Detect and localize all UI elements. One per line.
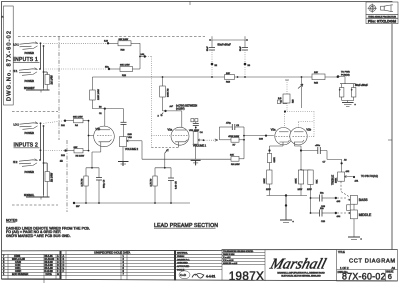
resistor R1 1M — [45, 74, 53, 90]
svg-text:Marshall: Marshall — [267, 256, 328, 273]
resistor R8 10K — [230, 155, 244, 166]
svg-text:VOLUME 1: VOLUME 1 — [193, 144, 207, 148]
svg-text:CCT DIAGRAM: CCT DIAGRAM — [349, 259, 396, 265]
wire anode V1a — [163, 111, 182, 130]
svg-text:100K: 100K — [296, 178, 298, 184]
svg-text:G: G — [57, 273, 59, 276]
svg-text:1987X: 1987X — [229, 270, 265, 283]
wire jack bus 1 — [41, 43, 48, 88]
net flag B1 — [191, 119, 198, 124]
svg-text:470p: 470p — [226, 122, 232, 124]
DWG number box (vertical, top-left) — [4, 6, 14, 105]
thick bar 2 — [174, 250, 176, 280]
revision texts — [3, 255, 125, 276]
svg-text:POWER: POWER — [25, 52, 35, 55]
wire jack bus 2 — [41, 123, 48, 195]
svg-text:NORMAL: NORMAL — [24, 194, 35, 197]
cathode bus wire — [73, 202, 190, 208]
wire C2R7 right junction — [243, 127, 245, 159]
svg-text:X = ±0.5: X = ±0.5 — [223, 257, 231, 259]
resistor R13 10K — [225, 73, 235, 84]
capacitor C21 — [207, 40, 218, 77]
svg-text:DATE: DATE — [46, 273, 53, 276]
wire C2R7 left junction — [218, 127, 220, 140]
approval stamps — [179, 271, 215, 279]
svg-text:50uF+50uF: 50uF+50uF — [218, 42, 232, 46]
wire cathode V1a — [155, 147, 178, 179]
resistor R4 68K — [66, 117, 89, 128]
resistor R5 68K — [67, 147, 89, 158]
svg-text:V2a: V2a — [271, 128, 276, 132]
dotted wire lo1 to R22 — [44, 68, 108, 70]
resistor Rk1 — [267, 154, 276, 171]
capacitor C22 — [240, 40, 251, 77]
thick bar 1 — [60, 251, 62, 280]
resistor R7 470K — [219, 136, 244, 147]
svg-text:1/2W: 1/2W — [307, 189, 312, 191]
capacitor C19 — [310, 193, 348, 208]
svg-text:68K 1/4W: 68K 1/4W — [120, 65, 131, 67]
svg-text:220K 1/4W: 220K 1/4W — [98, 88, 100, 100]
svg-text:R5 1/4W: R5 1/4W — [76, 156, 85, 158]
svg-text:10K: 10K — [314, 72, 318, 74]
to pwr pcb note — [337, 72, 350, 78]
INPUTS 1 label — [14, 57, 40, 63]
svg-text:MARSHALL AMPLIFICATION PLC, DE: MARSHALL AMPLIFICATION PLC, DENBIGH ROAD — [277, 272, 325, 275]
INPUTS 2 label — [14, 143, 40, 149]
tolerance box — [222, 250, 265, 282]
node dot mid2 — [40, 149, 42, 151]
svg-text:50uF: 50uF — [240, 46, 242, 51]
svg-text:10K: 10K — [230, 155, 234, 157]
svg-text:68K: 68K — [74, 147, 78, 149]
svg-text:1M 1/4W: 1M 1/4W — [51, 74, 53, 84]
title box — [337, 250, 398, 282]
pcb boundary dashed top — [18, 36, 205, 38]
capacitor C20 — [310, 208, 348, 223]
svg-text:1M 1/4W: 1M 1/4W — [51, 172, 53, 182]
wire cathode — [92, 152, 101, 168]
svg-text:6: 6 — [388, 272, 392, 281]
jack LO1 — [14, 42, 39, 55]
svg-text:100K: 100K — [264, 178, 266, 184]
svg-text:ANGLES = ±0.5: ANGLES = ±0.5 — [223, 262, 238, 265]
node 1Ba — [105, 66, 110, 70]
svg-text:TO PWR: TO PWR — [341, 72, 350, 74]
wire split — [86, 168, 99, 178]
ref arrow 1A3 — [158, 113, 164, 118]
svg-text:820R: 820R — [274, 157, 276, 163]
resistor bank R10 — [264, 170, 272, 196]
svg-text:V1a: V1a — [168, 127, 173, 131]
resistor bank R12 — [301, 170, 319, 213]
node dots HI1 — [39, 68, 41, 70]
svg-text:NOTES: NOTES — [6, 218, 18, 222]
resistor R3 — [82, 176, 89, 203]
svg-text:470K 1/4W: 470K 1/4W — [228, 136, 240, 138]
wire middle to ground — [353, 219, 355, 237]
jack LO2 — [14, 122, 39, 135]
ground right bank — [342, 101, 357, 108]
svg-text:FINISH: FINISH — [177, 256, 185, 258]
svg-text:R8 1/4W: R8 1/4W — [231, 164, 240, 166]
net flag B-B — [278, 98, 287, 103]
wire V2b cathode — [295, 145, 302, 170]
svg-text:X.X = ±0.25: X.X = ±0.25 — [223, 260, 234, 262]
dotted anode V2a — [284, 110, 286, 131]
capacitor C5 — [168, 178, 178, 203]
svg-text:HI 2: HI 2 — [13, 161, 18, 164]
dotted grid loop V2b — [285, 112, 314, 137]
ground middle — [348, 237, 363, 242]
svg-text:GND'S MARKED * ARE PCB BUS GND: GND'S MARKED * ARE PCB BUS GND. — [6, 234, 71, 238]
svg-text:1/2W: 1/2W — [266, 189, 271, 191]
svg-text:10K: 10K — [226, 73, 230, 75]
resistor bank R11 — [296, 170, 304, 196]
dotted wire to V1a grid — [146, 57, 170, 148]
LEAD PREAMP SECTION label — [154, 223, 218, 229]
cathode bus wire y159 — [142, 158, 231, 160]
svg-text:50uF: 50uF — [207, 46, 209, 51]
svg-text:A4*: A4* — [170, 105, 174, 108]
svg-text:680p C3: 680p C3 — [104, 179, 106, 188]
jack HI2 — [13, 159, 38, 174]
pot VR1 volume 1 — [189, 130, 207, 147]
svg-text:(+125V): (+125V) — [176, 108, 185, 111]
svg-text:V2b: V2b — [306, 128, 311, 132]
svg-text:87X-60-02: 87X-60-02 — [342, 272, 386, 282]
svg-text:1/2W: 1/2W — [298, 189, 303, 191]
resistor R22 68K — [110, 65, 140, 78]
pcb boundary dash-dot vertical lower — [66, 140, 68, 212]
dotted wire lo2 to R4 node — [44, 121, 64, 124]
dashed treble to bass — [341, 181, 350, 197]
capacitor C7 — [301, 145, 347, 172]
triode V1a — [168, 127, 190, 146]
pot VR3 volume 2 — [120, 134, 143, 151]
wire V2a cathode — [270, 145, 284, 154]
dotted wire hi2 to R5 node — [44, 149, 65, 151]
svg-text:BN*: BN* — [76, 206, 80, 208]
svg-text:DRAWN P.C.: DRAWN P.C. — [177, 258, 190, 261]
triode V2b — [290, 128, 312, 145]
capacitor C3 — [96, 178, 106, 204]
svg-text:HI 1: HI 1 — [13, 70, 18, 73]
svg-text:UNSPECIFIED HOLE DATA: UNSPECIFIED HOLE DATA — [94, 251, 130, 255]
filter caps right bank — [338, 77, 368, 101]
resistor RA 220K (V1b anode) — [90, 77, 100, 109]
svg-text:VR1 100K: VR1 100K — [189, 130, 200, 132]
ground input1 — [24, 87, 50, 93]
pcb boundary dash-dot vertical upper — [58, 37, 60, 141]
svg-text:0.68 C5: 0.68 C5 — [176, 181, 178, 189]
svg-text:100K R6: 100K R6 — [168, 88, 170, 97]
pot middle — [348, 210, 372, 219]
HT rail — [92, 76, 338, 78]
wire anode V2b from rail — [298, 77, 303, 108]
NOTES — [6, 218, 90, 238]
ground input2 — [24, 194, 50, 200]
node dots LO1 — [40, 42, 42, 44]
process rows right of bar2 — [177, 252, 190, 272]
wire VR3 wiper down — [141, 141, 143, 159]
svg-text:File: 87X2.DGM: File: 87X2.DGM — [368, 19, 396, 24]
svg-text:DIMS IN MM: DIMS IN MM — [223, 254, 235, 256]
svg-text:56K: 56K — [317, 179, 319, 183]
node 2A1 — [61, 120, 66, 128]
wire VR1 bottom — [195, 144, 197, 159]
svg-text:TO PB FO(A1): TO PB FO(A1) — [361, 174, 378, 178]
svg-text:2.7K R?: 2.7K R? — [151, 178, 153, 187]
coupling box R20 — [281, 80, 295, 111]
capacitor C4 — [193, 124, 204, 135]
svg-text:VOLUME 2: VOLUME 2 — [125, 147, 139, 151]
svg-text:TOLERANCES UNLESS STATED: TOLERANCES UNLESS STATED — [223, 250, 254, 253]
svg-text:POWER: POWER — [25, 171, 35, 174]
svg-text:LO 2: LO 2 — [14, 124, 20, 127]
svg-text:C+D: C+D — [180, 273, 187, 277]
pcb boundary dashed mid — [12, 111, 58, 113]
wire V1b grid join — [88, 120, 94, 152]
resistor R26 — [347, 204, 354, 210]
resistor R23 68K — [109, 39, 140, 52]
dotted wire hi1 to R23 — [44, 42, 107, 44]
marshall logo — [267, 256, 328, 278]
svg-text:BLETCHLEY, MILTON KEYNES, ENGL: BLETCHLEY, MILTON KEYNES, ENGLAND — [281, 275, 321, 278]
svg-text:LO 1: LO 1 — [14, 44, 20, 47]
capacitor C2 470p — [219, 122, 244, 130]
svg-text:A3: A3 — [392, 266, 396, 270]
node 2A2 — [61, 149, 67, 156]
projection symbol box (top-right) — [366, 2, 398, 24]
svg-text:PCB(A2): PCB(A2) — [341, 73, 350, 76]
svg-text:200K: 200K — [336, 177, 338, 183]
svg-text:1n: 1n — [281, 100, 283, 102]
triode V2a — [271, 128, 292, 145]
cathode ground bus — [267, 194, 308, 220]
wire anode V1b / node B6 — [92, 106, 123, 129]
svg-text:MATERIAL: MATERIAL — [177, 252, 189, 255]
pcb boundary dashed bottom — [12, 204, 58, 206]
svg-text:50uF+50uF: 50uF+50uF — [355, 84, 368, 87]
svg-text:TITLE: TITLE — [338, 251, 345, 254]
svg-text:CHECKED: CHECKED — [177, 263, 188, 265]
ground VR3 — [118, 162, 129, 167]
svg-text:POWER: POWER — [25, 80, 35, 83]
svg-text:DWG.No. 87X-60-02: DWG.No. 87X-60-02 — [7, 30, 13, 101]
svg-text:APPROVED: APPROVED — [177, 265, 190, 268]
svg-text:ECO NUMBER: ECO NUMBER — [12, 273, 28, 276]
resistor R6 100K (V1a anode) — [160, 77, 170, 111]
svg-text:68K 1/4W: 68K 1/4W — [73, 117, 84, 119]
svg-text:+50u: +50u — [315, 145, 321, 147]
resistor R10k — [151, 176, 158, 203]
svg-text:68K 1/4W: 68K 1/4W — [119, 39, 130, 41]
dotted wiper to tone — [205, 139, 218, 141]
ground VR1 — [191, 160, 201, 165]
wiper arrow trim — [152, 148, 179, 154]
filter caps 50uF+50uF top — [209, 36, 248, 46]
svg-text:2.7K R3: 2.7K R3 — [82, 178, 84, 187]
jack HI1 — [13, 68, 38, 83]
node 1A2 — [104, 40, 109, 45]
revision table rows — [2, 257, 223, 278]
wire mix junction — [139, 43, 146, 69]
node A4 — [164, 105, 197, 113]
pot treble — [330, 170, 359, 185]
capacitor C8 to VR3 — [121, 109, 127, 137]
svg-text:LEAD PREAMP SECTION: LEAD PREAMP SECTION — [154, 223, 218, 229]
triode V1b — [94, 126, 115, 152]
wire to V2a grid — [244, 135, 274, 141]
ground V2 — [280, 220, 295, 224]
svg-text:4-4-91: 4-4-91 — [206, 275, 215, 279]
revision table columns — [8, 251, 127, 280]
node dots HI2 — [39, 159, 41, 161]
svg-text:BASS: BASS — [359, 198, 369, 202]
svg-text:V1b: V1b — [96, 127, 101, 131]
svg-text:BP/GNDT: BP/GNDT — [24, 87, 35, 90]
pot bass — [348, 195, 369, 204]
svg-text:MIDDLE: MIDDLE — [359, 213, 372, 217]
node dots LO2 — [40, 122, 42, 124]
resistor R15 10K — [312, 72, 325, 85]
wire VR3 bottom to ground — [122, 147, 124, 162]
svg-text:POWER: POWER — [25, 132, 35, 135]
resistor R2 1M — [45, 172, 53, 198]
svg-text:TREBLE: TREBLE — [330, 175, 334, 185]
